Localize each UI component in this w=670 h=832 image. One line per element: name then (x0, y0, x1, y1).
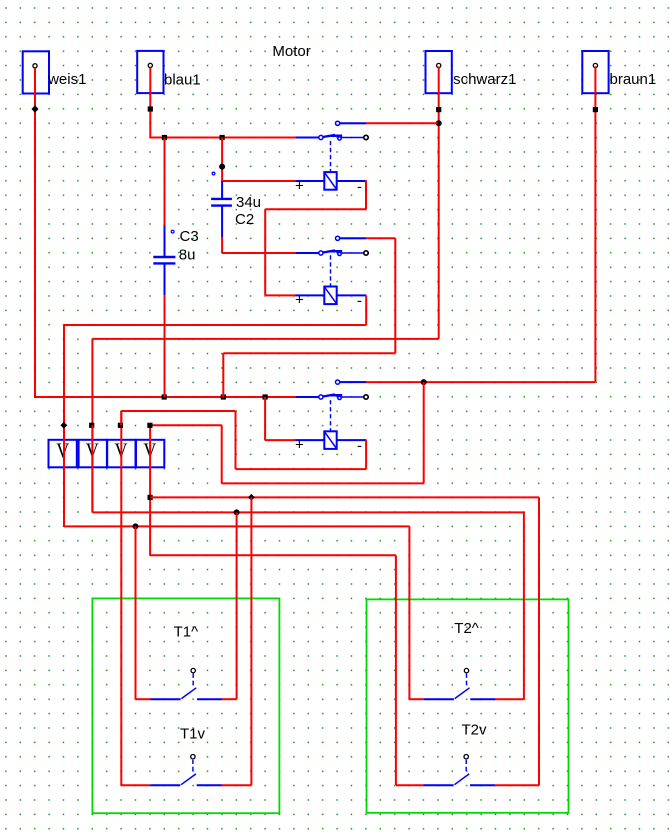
svg-text:+: + (295, 292, 304, 309)
wire blau1 net blue lead to K1 common (295, 137, 319, 139)
svg-text:braun1: braun1 (610, 71, 657, 88)
switch T1down left contact (150, 784, 180, 786)
relay K3 common terminal and blade (319, 394, 364, 400)
junction relay K3 plus branch on weis1 net (263, 394, 268, 399)
wire T2up row right red (495, 698, 524, 700)
wire relay K2 throw horizontal left (223, 352, 395, 354)
relay K1 actuation dashed link (330, 141, 332, 172)
terminal schwarz1 (426, 51, 452, 93)
enclosure box T1 (92, 598, 279, 813)
wire C2 top vertical (221, 138, 223, 182)
svg-text:schwarz1: schwarz1 (453, 71, 516, 88)
svg-text:T2^: T2^ (454, 620, 479, 637)
terminal blau1 (137, 51, 163, 93)
wire T2up row left red (409, 698, 424, 700)
junction connector pin 3 (118, 423, 123, 428)
wire pin1 net horizontal (64, 525, 409, 527)
relay K2 coil polarity labels (295, 292, 362, 310)
junction relay K1 throw tap on schwarz1 wire (436, 120, 442, 126)
switch T1down dashed stem (192, 760, 194, 773)
junction on blau1 wire (148, 106, 153, 111)
wire C2 bottom down (221, 237, 223, 253)
junction T1up left branch (133, 523, 139, 529)
relay K1 common terminal and blade (319, 135, 364, 141)
junction on schwarz1 wire (436, 107, 441, 112)
junction C3 top on blau1 net (162, 135, 167, 140)
wire relay K1 minus loop down (365, 180, 367, 209)
relay K3 coil polarity labels (295, 437, 362, 455)
wire relay K1 minus blue lead (337, 180, 366, 182)
wire relay K3 plus riser from weis1 net (264, 397, 266, 440)
relay K2 throw contact terminal (336, 236, 366, 240)
switch T1up right contact (197, 698, 222, 700)
wire relay K2 minus down (365, 295, 367, 325)
junction relay K2 throw branch on weis1 net (221, 394, 226, 399)
svg-text:C2: C2 (235, 211, 254, 228)
svg-text:T2v: T2v (462, 722, 488, 739)
wire relay K1 plus feed (222, 180, 295, 182)
wire pin4 net horizontal (222, 482, 424, 484)
wire T1up right feed down (236, 512, 238, 699)
relay K1 coil (324, 172, 336, 190)
relay K2 unconnected contact pin end (364, 251, 368, 255)
wire C3 bottom down to weis1 net (164, 295, 166, 397)
junction on C2 vertical (219, 164, 225, 170)
junction on weis1 wire (31, 105, 38, 112)
relay K3 actuation dashed link (330, 400, 332, 431)
svg-text:weis1: weis1 (47, 71, 86, 88)
wire T2down row left red (396, 784, 424, 786)
wire schwarz1 down (438, 67, 440, 339)
wire relay K1 minus loop down 2 (264, 209, 266, 295)
svg-text:T1v: T1v (180, 725, 206, 742)
junction connector pin4 riser on braun1 net (421, 379, 427, 385)
junction C3 bottom on weis1 net (162, 394, 167, 399)
wire relay K3 minus horizontal (236, 468, 367, 470)
relay K2 actuation dashed link (330, 255, 332, 286)
switch T2down left contact (424, 784, 454, 786)
wire relay K2 minus blue lead (337, 294, 367, 296)
wire T1down row right red (221, 784, 251, 786)
wire T2up right feed down (523, 512, 525, 699)
switch T1down blade (181, 774, 196, 785)
relay K3 coil (324, 431, 336, 449)
wire relay K1 throw blue lead (340, 122, 366, 124)
relay K3 throw contact terminal (336, 380, 366, 384)
wire relay K3 minus up (235, 411, 237, 469)
switch T1down actuator circle (191, 755, 195, 759)
wire relay K2 plus blue lead (296, 294, 325, 296)
wire relay K3 minus blue lead (337, 439, 366, 441)
wire relay K1 plus blue lead (295, 180, 324, 182)
wire weis1 down to node row (34, 68, 36, 397)
wire relay K3 plus blue lead (296, 439, 325, 441)
switch T1up left contact (151, 698, 181, 700)
enclosure box T2 (367, 599, 569, 812)
junction connector pin 1 (60, 422, 67, 429)
wire pin3 net down to switch T1down (120, 411, 122, 785)
wire schwarz1 net down to connector pin 2 (91, 339, 93, 513)
wire relay K1 throw to schwarz1 (366, 122, 438, 124)
junction C2 top on blau1 net (220, 135, 225, 140)
wire relay K2 throw red lead (366, 237, 395, 239)
wire T2down right feed down (538, 497, 540, 785)
svg-text:C3: C3 (180, 228, 199, 245)
junction pin4 lower branch (148, 495, 153, 500)
wire braun1 down (594, 66, 596, 382)
switch T1up actuator circle (191, 668, 195, 672)
wire connector pin 2 through strip (91, 425, 93, 512)
wire T1up left feed down (135, 526, 137, 699)
svg-text:blau1: blau1 (164, 72, 201, 89)
wire schwarz1 net horizontal to T2up right feed (92, 511, 524, 513)
relay K2 common terminal and blade (319, 250, 364, 256)
switch T2down right contact (470, 784, 495, 786)
wire T1up row left red (136, 698, 152, 700)
wire relay K1 minus to relay K2 plus (265, 294, 295, 296)
wire pin4 net riser down (423, 382, 425, 483)
wire relay K3 minus down (365, 440, 367, 469)
wire pin4 net up (221, 425, 223, 483)
wire braun1 net horizontal to relay K3 throw (366, 381, 595, 383)
switch T2up blade (455, 688, 470, 699)
svg-text:T1^: T1^ (174, 623, 199, 640)
wire weis1 net blue lead to K3 common (295, 396, 319, 398)
switch T2up right contact (470, 698, 495, 700)
relay K1 coil polarity labels (295, 177, 362, 195)
wire pin1 net down to connector pin 1 (63, 325, 65, 526)
junction connector pin 4 (147, 423, 152, 428)
switch T2down blade (454, 774, 469, 785)
junction connector pin 2 (89, 423, 94, 428)
wire schwarz1 net horizontal left (92, 338, 438, 340)
switch T2down dashed stem (465, 760, 467, 773)
switch T1up dashed stem (192, 674, 194, 687)
wire relay K2 throw down to weis1 net (222, 353, 224, 397)
switch T1down right contact (197, 784, 222, 786)
wire C2 bottom to relay K2 common (222, 252, 295, 254)
wire pin4 net to connector pin 4 (150, 424, 222, 426)
wire relay K3 plus feed (265, 439, 295, 441)
wire connector pin4 down (149, 425, 151, 555)
wire T2up left feed down (408, 526, 410, 699)
switch T2up actuator circle (464, 668, 468, 672)
wire T1down row left red (121, 784, 150, 786)
wire relay K2 throw blue lead (340, 237, 367, 239)
switch T2up dashed stem (466, 674, 468, 687)
switch T1up blade (181, 688, 196, 699)
wire weis1 net horizontal to relay K3 common (34, 396, 295, 398)
terminal braun1 (582, 51, 608, 93)
relay K3 unconnected contact pin end (364, 395, 368, 399)
wire T2down left feed down (395, 555, 397, 785)
capacitor C2 (211, 172, 232, 237)
relay K1 throw contact terminal (336, 121, 366, 125)
wire pin4 bottom horizontal (150, 554, 396, 556)
junction T1down right branch (248, 494, 255, 501)
switch T2down actuator circle (464, 755, 468, 759)
wire connector pin 3 feed from relay K2 throw row (120, 411, 122, 425)
svg-text:+: + (295, 437, 304, 454)
wire T2down row right red (495, 784, 539, 786)
wire relay K1 minus loop left (265, 208, 366, 210)
svg-text:+: + (295, 177, 304, 194)
wire blau1 net horizontal to relay K1 common (150, 137, 295, 139)
relay K1 unconnected contact pin end (364, 135, 368, 139)
wire blau1 down (149, 68, 151, 138)
wire relay K2 throw down (394, 238, 396, 353)
switch T2up left contact (424, 698, 454, 700)
junction on braun1 wire (593, 107, 598, 112)
relay K2 coil (324, 287, 336, 305)
wire pin4 lower horizontal (150, 496, 539, 498)
svg-text:8u: 8u (179, 247, 196, 264)
wire braun1 net blue lead to K3 throw (340, 381, 366, 383)
capacitor C3 (153, 138, 175, 296)
wire relay K3 minus to connector pin 3 (121, 410, 235, 412)
wire T1down right feed down (250, 497, 252, 785)
svg-text:-: - (357, 178, 362, 195)
svg-text:V: V (56, 438, 69, 462)
wire relay K2 common blue lead (295, 252, 319, 254)
connector strip X1 with 4 clamp symbols (49, 438, 165, 467)
wire T1up row right red (222, 698, 237, 700)
junction T1up right branch (234, 509, 240, 515)
wire relay K2 minus horizontal to connector pin 1 (64, 324, 366, 326)
svg-text:34u: 34u (236, 194, 261, 211)
svg-text:Motor: Motor (272, 43, 310, 60)
terminal weis1 (23, 51, 49, 93)
